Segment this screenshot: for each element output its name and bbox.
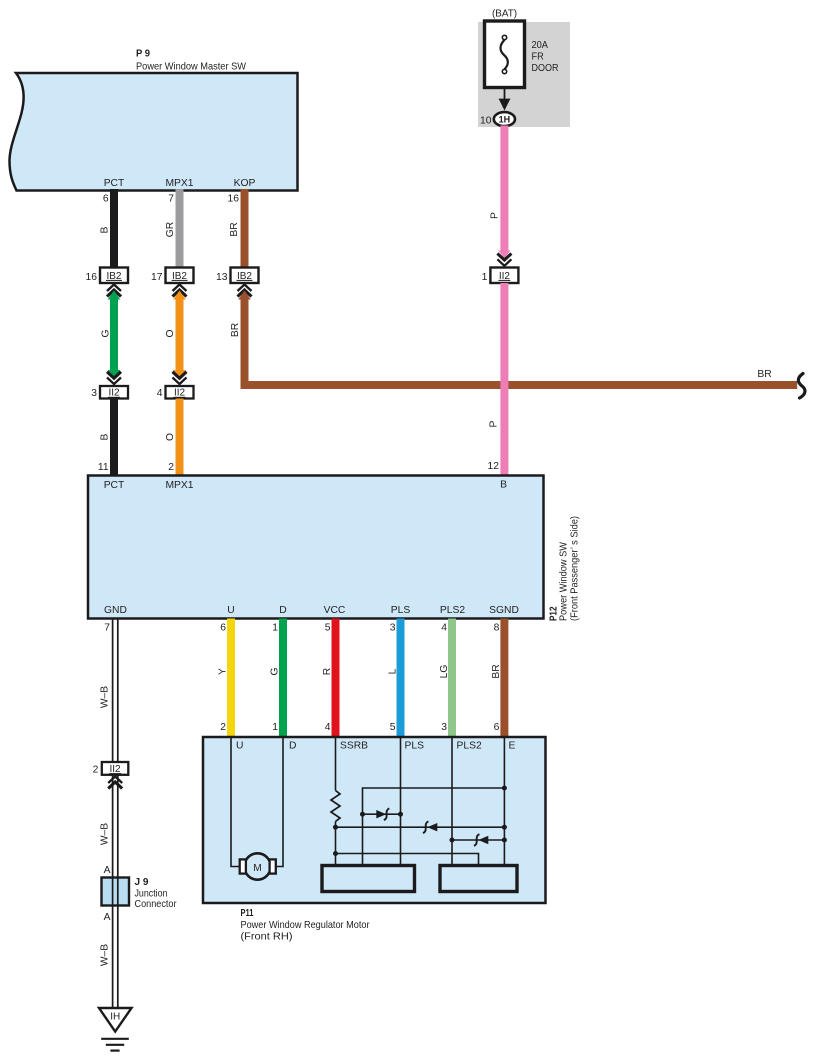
wire R red P12 pin 5 to motor SSRB — [332, 619, 340, 738]
svg-text:VCC: VCC — [324, 605, 346, 616]
svg-text:A: A — [104, 865, 111, 876]
wire B black from P9 pin 6 — [110, 189, 118, 268]
wire W-B double line GND to II2 — [113, 619, 118, 763]
fuse block shaded area — [478, 22, 570, 127]
wire O orange between IB2 and II2 — [173, 291, 186, 380]
wire row D diode branch — [452, 839, 504, 841]
svg-text:17: 17 — [151, 272, 163, 283]
svg-text:E: E — [509, 741, 516, 752]
svg-text:IH: IH — [110, 1012, 120, 1023]
node junction SSRB row E — [333, 851, 338, 856]
svg-text:5: 5 — [325, 623, 331, 634]
svg-text:2: 2 — [93, 765, 99, 776]
node junction row C at E — [502, 825, 507, 830]
fuse 20A FR DOOR — [485, 21, 525, 88]
connector 13 IB2 — [216, 268, 258, 297]
ground hatch symbol — [101, 1039, 129, 1051]
node junction SSRB row C — [333, 825, 338, 830]
svg-text:U: U — [236, 741, 243, 752]
svg-text:BR: BR — [229, 222, 240, 236]
svg-text:O: O — [165, 329, 176, 337]
wire BR brown from P9 pin 16 — [241, 189, 249, 268]
wire row B diode branch — [363, 813, 401, 815]
wire BR brown elbow to right edge — [238, 291, 797, 386]
svg-text:1: 1 — [272, 722, 278, 733]
svg-text:Y: Y — [218, 668, 229, 675]
svg-text:1: 1 — [272, 623, 278, 634]
node junction row B left — [360, 812, 365, 817]
svg-text:7: 7 — [104, 623, 110, 634]
svg-text:6: 6 — [103, 194, 109, 205]
svg-text:SSRB: SSRB — [340, 741, 368, 752]
block P12 Power Window SW (Front Passenger's Side) — [88, 476, 544, 619]
node junction row D right — [502, 838, 507, 843]
svg-text:BR: BR — [757, 369, 771, 380]
connector 4 II2 — [157, 372, 194, 399]
wire P pink from 1H fuse down to connector 1 II2 — [500, 126, 508, 253]
svg-text:B: B — [500, 480, 507, 491]
svg-text:Power Window Master SW: Power Window Master SW — [136, 62, 246, 73]
svg-text:M: M — [253, 863, 262, 874]
node junction row A at E — [502, 786, 507, 791]
svg-text:BR: BR — [230, 323, 241, 337]
block P11 Power Window Regulator Motor — [203, 737, 546, 903]
svg-text:2: 2 — [168, 462, 174, 473]
svg-text:FR: FR — [532, 52, 544, 63]
node junction row D left — [450, 838, 455, 843]
diode D3 pointing left zener — [474, 834, 488, 846]
component box right inside P11 — [440, 866, 517, 892]
svg-text:6: 6 — [220, 623, 226, 634]
node junction row B right — [398, 812, 403, 817]
svg-text:D: D — [279, 605, 286, 616]
svg-text:4: 4 — [441, 623, 447, 634]
label J9 Junction Connector — [135, 877, 177, 910]
svg-text:L: L — [388, 668, 399, 674]
svg-text:P: P — [490, 212, 501, 219]
junction connector J9 box — [102, 878, 130, 906]
svg-text:W–B: W–B — [100, 823, 111, 845]
wire pin D internal — [275, 738, 283, 867]
svg-text:11: 11 — [98, 462, 109, 473]
svg-text:P11: P11 — [241, 908, 254, 919]
wire W-B double line II2 to ground — [113, 775, 118, 1008]
svg-text:(BAT): (BAT) — [492, 9, 517, 20]
svg-text:20A: 20A — [532, 40, 549, 51]
resistor — [331, 791, 340, 822]
connector 1H oval, pin 10 — [480, 112, 515, 126]
svg-text:16: 16 — [86, 272, 98, 283]
svg-text:GND: GND — [104, 605, 127, 616]
svg-text:6: 6 — [494, 722, 500, 733]
svg-text:PLS2: PLS2 — [457, 741, 482, 752]
svg-text:D: D — [289, 741, 296, 752]
svg-text:13: 13 — [216, 272, 228, 283]
wire L blue P12 pin 3 to motor PLS — [397, 619, 405, 738]
wire G green P12 pin 1 to motor D — [279, 619, 287, 738]
svg-text:A: A — [104, 912, 111, 923]
svg-text:R: R — [322, 668, 333, 675]
wire B black II2 to P12 pin 11 — [110, 399, 118, 476]
svg-text:PLS: PLS — [405, 741, 425, 752]
svg-text:12: 12 — [488, 461, 500, 472]
connector 1 II2 — [482, 251, 519, 284]
svg-text:3: 3 — [441, 722, 447, 733]
svg-text:MPX1: MPX1 — [165, 178, 193, 189]
component box left inside P11 — [322, 866, 415, 892]
connector 16 IB2 — [86, 268, 128, 297]
svg-text:2: 2 — [220, 722, 226, 733]
svg-text:PLS: PLS — [391, 605, 411, 616]
svg-text:5: 5 — [390, 722, 396, 733]
wire Y yellow P12 pin 6 to motor U — [227, 619, 235, 738]
svg-text:W–B: W–B — [100, 944, 111, 966]
block P11 title — [241, 908, 371, 943]
svg-text:3: 3 — [390, 623, 396, 634]
wire row E horizontal with right drop — [336, 854, 479, 866]
svg-text:P: P — [489, 420, 500, 427]
wire P pink II2 to P12 pin 12 — [500, 283, 508, 476]
svg-text:(Front Passenger’ s Side): (Front Passenger’ s Side) — [570, 516, 581, 621]
svg-text:4: 4 — [325, 722, 331, 733]
svg-text:Power Window SW: Power Window SW — [559, 542, 570, 621]
wire row C horizontal — [336, 826, 505, 828]
svg-text:1: 1 — [482, 272, 488, 283]
svg-text:B: B — [100, 226, 111, 233]
svg-text:MPX1: MPX1 — [165, 480, 193, 491]
wire row A horizontal with left drop — [363, 788, 505, 866]
svg-text:P 9: P 9 — [136, 49, 150, 60]
wire pin U internal — [231, 738, 240, 867]
wire BR brown P12 pin 8 to motor E — [500, 619, 508, 738]
svg-text:DOOR: DOOR — [532, 63, 559, 74]
svg-text:Junction: Junction — [135, 889, 168, 900]
fuse value label 20A FR DOOR — [532, 40, 559, 74]
ground IH triangle — [99, 1008, 132, 1032]
svg-text:7: 7 — [168, 194, 174, 205]
svg-text:BR: BR — [491, 664, 502, 678]
svg-text:GR: GR — [165, 222, 176, 237]
wire break continuation mark — [798, 374, 805, 399]
svg-text:8: 8 — [494, 623, 500, 634]
wire pin SSRB internal — [335, 738, 337, 791]
svg-text:PCT: PCT — [104, 178, 125, 189]
wire SSRB below resistor — [335, 822, 337, 866]
svg-text:10: 10 — [480, 116, 492, 127]
svg-text:G: G — [270, 667, 281, 675]
wire GR gray from P9 pin 7 — [176, 189, 184, 268]
wire pin PLS internal — [400, 738, 402, 866]
diode D2 pointing left zener — [423, 821, 437, 833]
svg-text:B: B — [100, 433, 111, 440]
diode D1 pointing right zener — [376, 808, 389, 820]
svg-text:W–B: W–B — [100, 686, 111, 708]
svg-text:LG: LG — [439, 665, 450, 679]
svg-text:Power Window Regulator Motor: Power Window Regulator Motor — [241, 920, 371, 931]
svg-text:1H: 1H — [499, 114, 511, 124]
svg-text:J 9: J 9 — [135, 877, 149, 888]
connector 3 II2 — [91, 372, 128, 399]
wire O orange II2 to P12 pin 2 — [176, 399, 184, 476]
wire G green between IB2 and II2 — [108, 291, 121, 380]
block P9 Power Window Master SW — [10, 49, 298, 191]
motor M — [240, 853, 276, 879]
block P12 side title — [549, 516, 581, 621]
connector 2 II2 on ground wire — [93, 762, 129, 789]
svg-text:PLS2: PLS2 — [440, 605, 465, 616]
svg-text:(Front RH): (Front RH) — [241, 932, 293, 943]
wire fuse to connector 1H with arrow — [499, 88, 511, 111]
svg-text:3: 3 — [91, 388, 97, 399]
wire pin E internal — [503, 738, 505, 866]
svg-text:16: 16 — [228, 194, 240, 205]
svg-text:Connector: Connector — [135, 899, 177, 910]
svg-text:SGND: SGND — [489, 605, 519, 616]
svg-text:O: O — [165, 433, 176, 441]
connector 17 IB2 — [151, 268, 193, 297]
svg-text:KOP: KOP — [234, 178, 256, 189]
svg-text:U: U — [227, 605, 234, 616]
svg-text:PCT: PCT — [104, 480, 125, 491]
svg-text:G: G — [101, 329, 112, 337]
svg-text:4: 4 — [157, 388, 163, 399]
wire LG light green P12 pin 4 to motor PLS2 — [448, 619, 456, 738]
wire pin PLS2 internal — [451, 738, 453, 866]
